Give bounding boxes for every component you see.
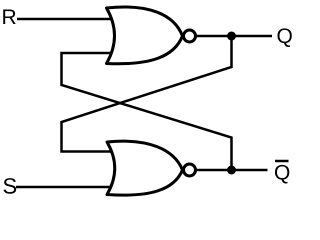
label R: [3, 10, 15, 24]
junction node at Qbar: [227, 166, 236, 175]
NOR gate U2 body: [107, 141, 183, 195]
wire R input to gate U1: [17, 18, 114, 21]
NOR gate U2 output bubble: [184, 164, 196, 176]
label S: [3, 178, 16, 194]
wire U1 output to Q: [194, 35, 272, 38]
wire feedback from Q node to U2 upper input: [62, 36, 232, 152]
label Qbar: [275, 165, 289, 184]
overline of Qbar: [275, 160, 289, 163]
label Q: [277, 28, 291, 47]
wire S input to gate U2: [16, 186, 114, 189]
NOR gate U1 output bubble: [184, 30, 196, 42]
wire U2 output to Qbar: [194, 169, 268, 172]
wire feedback from Qbar node to U1 lower input: [62, 53, 232, 170]
junction node at Q: [227, 32, 236, 41]
NOR gate U1 body: [107, 7, 183, 64]
